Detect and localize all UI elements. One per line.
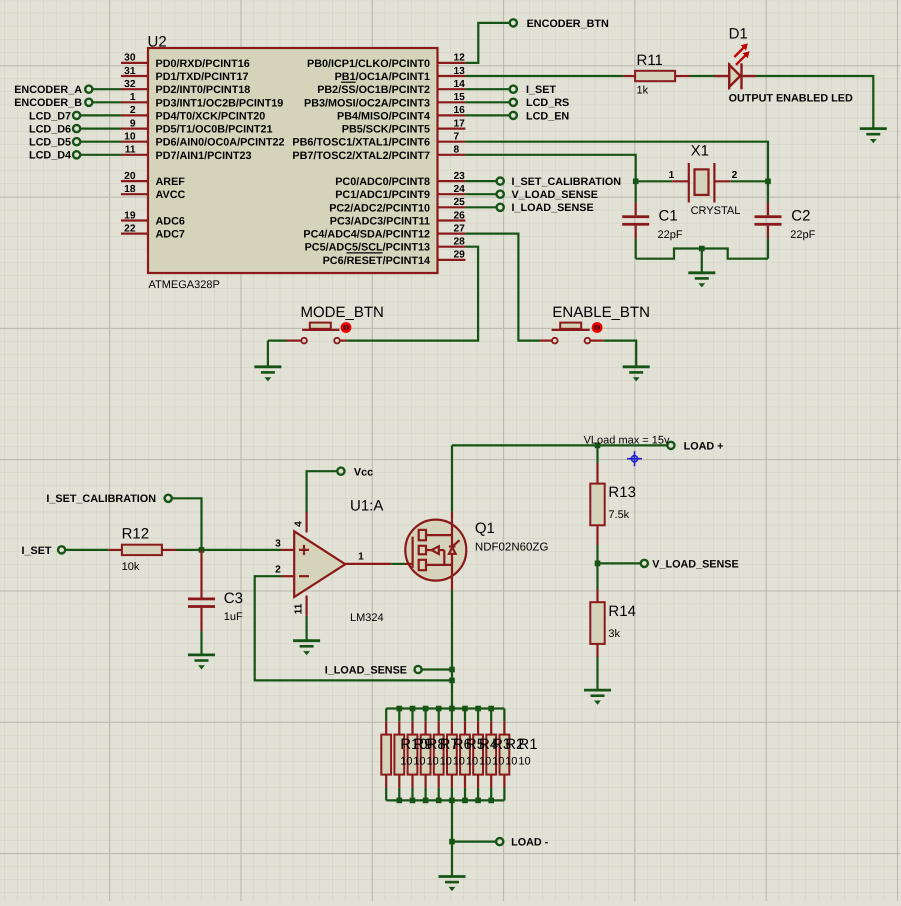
wire R2 to rails: [490, 709, 492, 722]
junction bank bottom R2: [488, 798, 494, 804]
svg-text:LCD_D4: LCD_D4: [29, 150, 71, 162]
ground (op-amp): [293, 641, 320, 656]
U2 pin 27 PC4/ADC4/SDA/PCINT12 stub: [438, 233, 466, 235]
junction bank bottom R8: [410, 798, 416, 804]
wire R11 to D1: [690, 75, 715, 77]
op-amp minus sign: [299, 575, 309, 577]
wire C3 to ground: [200, 632, 202, 655]
svg-text:I_SET: I_SET: [21, 545, 51, 557]
U2 pin 18 AVCC stub: [121, 193, 148, 195]
D1 emission arrows: [734, 43, 749, 64]
svg-text:LCD_D5: LCD_D5: [29, 137, 71, 149]
svg-text:C1: C1: [659, 207, 678, 224]
op-amp power stubs pin4 pin11: [306, 512, 308, 533]
svg-text:PD3/INT1/OC2B/PCINT19: PD3/INT1/OC2B/PCINT19: [156, 97, 284, 109]
push button MODE_BTN: [287, 323, 348, 344]
overline for RESET: [347, 252, 383, 254]
svg-text:ADC6: ADC6: [156, 216, 185, 228]
svg-text:PD0/RXD/PCINT16: PD0/RXD/PCINT16: [156, 58, 250, 70]
Q1 source stub: [451, 581, 453, 591]
svg-text:10: 10: [440, 756, 452, 768]
svg-text:PC3/ADC3/PCINT11: PC3/ADC3/PCINT11: [330, 216, 430, 228]
svg-text:9: 9: [130, 118, 136, 129]
resistor R4 pins: [464, 721, 466, 734]
resistor R6: [434, 735, 444, 775]
resistor R2 pins: [490, 721, 492, 734]
svg-text:10: 10: [453, 756, 465, 768]
junction bank top R3: [475, 706, 481, 712]
wire LCD_D7 to U2: [80, 114, 121, 116]
svg-text:PB3/MOSI/OC2A/PCINT3: PB3/MOSI/OC2A/PCINT3: [304, 97, 430, 109]
svg-text:PB2/SS/OC1B/PCINT2: PB2/SS/OC1B/PCINT2: [317, 84, 430, 96]
U2 pin 2 PD4/T0/XCK/PCINT20 stub: [121, 114, 148, 116]
svg-text:22pF: 22pF: [658, 229, 683, 241]
svg-text:R11: R11: [637, 52, 663, 69]
svg-text:ATMEGA328P: ATMEGA328P: [149, 279, 220, 291]
wire crystal ground rail: [636, 249, 768, 259]
U2 pin 24 PC1/ADC1/PCINT9 stub: [438, 193, 466, 195]
U2 pin 31 PD1/TXD/PCINT17 stub: [121, 75, 148, 77]
resistor R10: [381, 735, 391, 775]
junction bank bottom R9: [397, 798, 403, 804]
resistor R1: [500, 735, 510, 775]
junction bank bottom R3: [475, 798, 481, 804]
wire R5 to rails: [451, 709, 453, 722]
svg-text:ENCODER_A: ENCODER_A: [14, 84, 82, 96]
svg-text:1: 1: [669, 170, 675, 181]
resistor R14: [590, 602, 604, 644]
svg-text:20: 20: [124, 171, 136, 182]
wire U2 pin27 to ENABLE_BTN: [465, 234, 540, 341]
svg-text:R12: R12: [122, 525, 150, 542]
svg-text:OUTPUT ENABLED LED: OUTPUT ENABLED LED: [729, 93, 853, 105]
svg-text:14: 14: [454, 79, 466, 90]
wire I_SET to R12: [65, 549, 108, 551]
wire U2 to V_LOAD_SENSE: [465, 193, 496, 195]
svg-text:LCD_RS: LCD_RS: [526, 97, 569, 109]
wire R8 to rails: [411, 709, 413, 722]
wire R6 to rails: [438, 709, 440, 722]
resistor R10 pins: [385, 721, 387, 734]
terminal LCD_D4: [73, 151, 80, 158]
wire I_SET_CALIBRATION to node: [172, 498, 202, 550]
svg-text:NDF02N60ZG: NDF02N60ZG: [475, 542, 549, 554]
svg-text:2: 2: [275, 565, 281, 576]
U2 pin 1 PD3/INT1/OC2B/PCINT19 stub: [121, 101, 148, 103]
svg-text:11: 11: [125, 145, 136, 156]
wire Q1 source down to bank: [451, 590, 453, 708]
svg-text:V_LOAD_SENSE: V_LOAD_SENSE: [512, 189, 598, 201]
wire R7 to rails: [425, 709, 427, 722]
resistor R8: [408, 735, 418, 775]
svg-text:PC1/ADC1/PCINT9: PC1/ADC1/PCINT9: [335, 189, 430, 201]
overline for SS: [341, 81, 356, 83]
wire U2 pin12 to ENCODER_BTN: [465, 23, 509, 63]
svg-text:26: 26: [454, 210, 466, 221]
svg-text:1uF: 1uF: [224, 611, 243, 623]
svg-text:8: 8: [454, 145, 460, 156]
junction LOAD+ node: [595, 443, 601, 449]
svg-text:2: 2: [732, 170, 738, 181]
svg-text:28: 28: [454, 237, 466, 248]
junction bank bottom R4: [462, 798, 468, 804]
resistor R6 pins: [438, 721, 440, 734]
resistor R8 pins: [411, 721, 413, 734]
resistor R13: [590, 484, 604, 526]
svg-text:ENABLE_BTN: ENABLE_BTN: [552, 304, 650, 321]
U2 pin 26 PC3/ADC3/PCINT11 stub: [438, 219, 466, 221]
op-amp input stubs: [281, 549, 294, 551]
svg-text:PB5/SCK/PCINT5: PB5/SCK/PCINT5: [342, 124, 430, 136]
U2 pin 7 PB6/TOSC1/XTAL1/PCINT6 stub: [438, 141, 466, 143]
ground (ENABLE_BTN): [623, 367, 650, 382]
svg-text:30: 30: [124, 53, 136, 64]
wire LCD_D6 to U2: [80, 128, 121, 130]
wire node to C2: [767, 181, 769, 202]
U2 pin 29 PC6/RESET/PCINT14 stub: [438, 259, 466, 261]
U2 pin 17 PB5/SCK/PCINT5 stub: [438, 128, 466, 130]
svg-text:VLoad max = 15v: VLoad max = 15v: [584, 435, 670, 447]
svg-text:R14: R14: [608, 603, 636, 620]
wire R9 to rails: [398, 709, 400, 722]
LED D1: [714, 63, 756, 89]
terminal ENCODER_A: [85, 86, 92, 93]
resistor R1 pins: [503, 721, 505, 734]
svg-text:24: 24: [454, 184, 466, 195]
wire opamp out to Q1 gate: [391, 563, 404, 565]
terminal LCD_RS: [510, 99, 517, 106]
wire: [267, 341, 269, 367]
svg-text:19: 19: [124, 210, 136, 221]
junction bank bottom R6: [436, 798, 442, 804]
junction bank bottom R5: [449, 798, 455, 804]
junction bank top R4: [462, 706, 468, 712]
wire U2 pin13 to R11: [465, 75, 623, 77]
resistor R5 pins: [451, 721, 453, 734]
svg-text:10: 10: [413, 756, 425, 768]
origin marker (blue crosshair): [627, 451, 642, 466]
push button ENABLE_BTN: [540, 323, 604, 344]
resistor R9: [394, 735, 404, 775]
wire R1 to rails: [503, 709, 505, 722]
terminal I_SET_CALIBRATION: [165, 495, 172, 502]
svg-text:C3: C3: [224, 590, 243, 607]
ground (LOAD): [439, 877, 466, 892]
junction bank top R9: [397, 706, 403, 712]
resistor R7 pins: [425, 721, 427, 734]
resistor R11: [635, 71, 675, 81]
U2 pin 25 PC2/ADC2/PCINT10 stub: [438, 206, 466, 208]
wire node to X1 pin1: [636, 180, 673, 182]
svg-text:LCD_EN: LCD_EN: [526, 110, 569, 122]
wire R10 to rails: [385, 709, 387, 722]
resistor R5: [447, 735, 457, 775]
svg-text:R13: R13: [608, 484, 636, 501]
U2 pin 28 PC5/ADC5/SCL/PCINT13 stub: [438, 246, 466, 248]
svg-text:2: 2: [130, 105, 136, 116]
wire ENCODER_A to U2: [92, 88, 121, 90]
svg-text:3: 3: [275, 538, 281, 549]
U2 pin 9 PD5/T1/OC0B/PCINT21 stub: [121, 128, 148, 130]
svg-text:PD5/T1/OC0B/PCINT21: PD5/T1/OC0B/PCINT21: [156, 124, 273, 136]
resistor R7: [421, 735, 431, 775]
svg-text:I_SET_CALIBRATION: I_SET_CALIBRATION: [512, 176, 622, 188]
junction crystal right node: [765, 179, 771, 185]
wire C1 to rail: [635, 239, 637, 259]
svg-text:PD6/AIN0/OC0A/PCINT22: PD6/AIN0/OC0A/PCINT22: [156, 137, 285, 149]
U2 pin 23 PC0/ADC0/PCINT8 stub: [438, 180, 466, 182]
svg-text:C2: C2: [791, 207, 810, 224]
resistor R14 pins: [596, 589, 598, 602]
svg-text:3k: 3k: [608, 628, 620, 640]
wire bank top rail: [386, 707, 504, 709]
svg-text:13: 13: [454, 66, 466, 77]
svg-text:27: 27: [454, 223, 466, 234]
crystal X1: [672, 163, 730, 203]
junction bank top R6: [436, 706, 442, 712]
ENABLE_BTN actuator red circle: [592, 322, 603, 333]
wire ENABLE_BTN to ground: [604, 341, 637, 367]
svg-text:LOAD +: LOAD +: [684, 440, 724, 452]
ground (LED): [860, 129, 887, 144]
U2 pin 10 PD6/AIN0/OC0A/PCINT22 stub: [121, 141, 148, 143]
ground (MODE_BTN): [254, 367, 281, 382]
junction bank top R5: [449, 706, 455, 712]
terminal I_LOAD_SENSE: [415, 666, 422, 673]
U2 pin 22 ADC7 stub: [121, 233, 148, 235]
U2 pin 8 PB7/TOSC2/XTAL2/PCINT7 stub: [438, 154, 466, 156]
wire LCD_D4 to U2: [80, 154, 121, 156]
U2 pin 16 PB4/MISO/PCINT4 stub: [438, 114, 466, 116]
svg-text:PB7/TOSC2/XTAL2/PCINT7: PB7/TOSC2/XTAL2/PCINT7: [292, 150, 430, 162]
wire I_LOAD_SENSE to node: [422, 668, 452, 670]
terminal LCD_EN: [510, 112, 517, 119]
wire U2 to LCD_EN: [465, 114, 509, 116]
op-amp U1:A: [294, 531, 345, 597]
terminal ENCODER_BTN: [510, 19, 517, 26]
transistor Q1 NDF02N60ZG: [405, 520, 467, 581]
wire opamp pin4 to Vcc: [307, 471, 337, 512]
wire bank to ground: [451, 800, 453, 876]
svg-text:10: 10: [400, 756, 412, 768]
wire feedback opamp pin2 to source node: [255, 576, 452, 680]
svg-text:X1: X1: [691, 142, 709, 159]
terminal I_SET: [510, 86, 517, 93]
U2 pin 13 PB1/OC1A/PCINT1 stub: [438, 75, 466, 77]
terminal V_LOAD_SENSE: [497, 191, 504, 198]
svg-text:PB6/TOSC1/XTAL1/PCINT6: PB6/TOSC1/XTAL1/PCINT6: [292, 137, 430, 149]
wire C2 to rail: [767, 239, 769, 259]
svg-text:PD2/INT0/PCINT18: PD2/INT0/PCINT18: [156, 84, 251, 96]
U2 pin 15 PB3/MOSI/OC2A/PCINT3 stub: [438, 101, 466, 103]
svg-text:I_SET: I_SET: [526, 84, 556, 96]
svg-text:29: 29: [454, 250, 466, 261]
svg-text:10: 10: [518, 756, 530, 768]
U2 pin 19 ADC6 stub: [121, 219, 148, 221]
svg-text:ADC7: ADC7: [156, 229, 185, 241]
resistor R12: [122, 545, 162, 555]
svg-text:U2: U2: [148, 34, 167, 51]
svg-text:1k: 1k: [637, 85, 649, 97]
junction bank top R2: [488, 706, 494, 712]
wire X1 pin2 to node: [730, 180, 768, 182]
svg-text:ENCODER_BTN: ENCODER_BTN: [527, 18, 609, 30]
svg-text:R1: R1: [518, 736, 537, 753]
Q1 drain stub: [451, 512, 453, 520]
junction bank top R8: [410, 706, 416, 712]
wire R4 to rails: [464, 709, 466, 722]
wire U2 pin7 XTAL1 to crystal: [465, 142, 768, 182]
ground (C3): [188, 655, 215, 670]
svg-text:LOAD -: LOAD -: [511, 837, 549, 849]
svg-text:10: 10: [466, 756, 478, 768]
svg-text:PD1/TXD/PCINT17: PD1/TXD/PCINT17: [156, 71, 249, 83]
svg-text:LM324: LM324: [350, 612, 384, 624]
svg-text:25: 25: [454, 197, 466, 208]
junction V_LOAD_SENSE node: [595, 561, 601, 567]
terminal LCD_D6: [73, 125, 80, 132]
svg-text:22pF: 22pF: [790, 229, 815, 241]
U2 pin 11 PD7/AIN1/PCINT23 stub: [121, 154, 148, 156]
svg-text:10: 10: [505, 756, 517, 768]
U2 pin 14 PB2/SS/OC1B/PCINT2 stub: [438, 88, 466, 90]
svg-text:PB4/MISO/PCINT4: PB4/MISO/PCINT4: [337, 110, 430, 122]
svg-text:15: 15: [454, 92, 466, 103]
resistor R12 pins: [108, 549, 122, 551]
svg-text:PC4/ADC4/SDA/PCINT12: PC4/ADC4/SDA/PCINT12: [303, 229, 430, 241]
junction crystal ground node: [699, 246, 705, 252]
svg-text:18: 18: [124, 184, 136, 195]
svg-text:10: 10: [492, 756, 504, 768]
terminal V_LOAD_SENSE: [641, 560, 648, 567]
resistor R4: [460, 735, 470, 775]
terminal LOAD-: [496, 838, 503, 845]
ground (R14): [584, 690, 611, 705]
resistor R9 pins: [398, 721, 400, 734]
svg-text:D1: D1: [729, 25, 748, 42]
terminal LOAD+: [667, 442, 674, 449]
svg-text:AVCC: AVCC: [156, 189, 186, 201]
resistor R11 pins: [623, 75, 635, 77]
svg-text:PD7/AIN1/PCINT23: PD7/AIN1/PCINT23: [156, 150, 252, 162]
svg-text:ENCODER_B: ENCODER_B: [14, 97, 82, 109]
wire U2 to I_SET_CALIBRATION: [465, 180, 496, 182]
svg-text:PB1/OC1A/PCINT1: PB1/OC1A/PCINT1: [335, 71, 430, 83]
svg-text:MODE_BTN: MODE_BTN: [301, 304, 384, 321]
terminal I_SET_CALIBRATION: [497, 178, 504, 185]
wire to V_LOAD_SENSE: [598, 562, 641, 564]
IC U2 ATMEGA328P body: [148, 48, 438, 273]
terminal ENCODER_B: [85, 99, 92, 106]
U2 pin 12 PB0/ICP1/CLKO/PCINT0 stub: [438, 62, 466, 64]
svg-text:10k: 10k: [122, 561, 140, 573]
svg-text:4: 4: [294, 521, 305, 527]
op-amp plus sign: [299, 545, 309, 555]
svg-text:LCD_D7: LCD_D7: [29, 110, 71, 122]
U2 pin 32 PD2/INT0/PCINT18 stub: [121, 88, 148, 90]
resistor R3 pins: [477, 721, 479, 734]
MODE_BTN actuator red circle: [341, 322, 352, 333]
capacitor C2: [755, 202, 782, 238]
svg-text:12: 12: [454, 53, 466, 64]
svg-text:22: 22: [124, 223, 136, 234]
wire U2 to LCD_RS: [465, 101, 509, 103]
terminal LCD_D5: [73, 138, 80, 145]
wire to ground: [701, 249, 703, 273]
svg-text:CRYSTAL: CRYSTAL: [691, 205, 741, 217]
svg-text:11: 11: [294, 603, 305, 614]
wire opamp pin11 to ground: [306, 616, 308, 641]
wire ground to MODE_BTN: [268, 340, 287, 342]
svg-text:PB0/ICP1/CLKO/PCINT0: PB0/ICP1/CLKO/PCINT0: [307, 58, 430, 70]
junction R12/C3 node: [199, 547, 205, 553]
U2 pin 20 AREF stub: [121, 180, 148, 182]
wire U2 to I_SET: [465, 88, 509, 90]
junction crystal left node: [633, 179, 639, 185]
svg-text:10: 10: [427, 756, 439, 768]
junction I_LOAD_SENSE node: [449, 667, 455, 673]
wire R14 to ground: [596, 657, 598, 690]
svg-text:23: 23: [454, 171, 466, 182]
capacitor C3: [188, 550, 215, 632]
wire node to R14: [596, 563, 598, 589]
terminal LCD_D7: [73, 112, 80, 119]
junction bank top R7: [423, 706, 429, 712]
junction feedback node: [449, 678, 455, 684]
wire LOAD+ rail: [452, 444, 667, 446]
wire Q1 drain up: [451, 445, 453, 511]
ground (crystal): [688, 273, 715, 288]
capacitor C1: [622, 202, 649, 238]
junction bank bottom R7: [423, 798, 429, 804]
svg-text:PC2/ADC2/PCINT10: PC2/ADC2/PCINT10: [329, 202, 430, 214]
svg-text:32: 32: [124, 79, 136, 90]
terminal Vcc: [337, 468, 344, 475]
junction LOAD- node: [449, 839, 455, 845]
svg-text:AREF: AREF: [156, 176, 186, 188]
svg-text:10: 10: [124, 132, 136, 143]
resistor R3: [473, 735, 483, 775]
wire bank bottom rail: [386, 799, 504, 801]
svg-text:PC6/RESET/PCINT14: PC6/RESET/PCINT14: [323, 255, 430, 267]
svg-text:17: 17: [454, 118, 466, 129]
wire MODE_BTN to U2 pin28: [347, 247, 478, 341]
svg-text:31: 31: [124, 66, 136, 77]
terminal I_SET: [58, 546, 65, 553]
resistor R13 pins: [596, 463, 598, 484]
op-amp output stub pin1: [345, 563, 391, 565]
terminal I_LOAD_SENSE: [497, 204, 504, 211]
wire R13 to node: [596, 545, 598, 563]
wire to R13: [596, 445, 598, 463]
resistor R2: [486, 735, 496, 775]
wire to LOAD-: [452, 840, 496, 842]
svg-text:I_LOAD_SENSE: I_LOAD_SENSE: [512, 202, 594, 214]
svg-text:V_LOAD_SENSE: V_LOAD_SENSE: [652, 558, 738, 570]
svg-text:Vcc: Vcc: [354, 466, 373, 478]
wire U2 pin8 XTAL2 to crystal: [465, 155, 635, 182]
svg-text:16: 16: [454, 105, 466, 116]
wire ENCODER_B to U2: [92, 101, 121, 103]
svg-text:I_LOAD_SENSE: I_LOAD_SENSE: [325, 664, 407, 676]
svg-text:7.5k: 7.5k: [608, 509, 629, 521]
svg-text:PD4/T0/XCK/PCINT20: PD4/T0/XCK/PCINT20: [156, 110, 266, 122]
svg-text:1: 1: [358, 552, 364, 563]
svg-text:PC5/ADC5/SCL/PCINT13: PC5/ADC5/SCL/PCINT13: [305, 242, 430, 254]
svg-text:I_SET_CALIBRATION: I_SET_CALIBRATION: [46, 493, 156, 505]
svg-text:PC0/ADC0/PCINT8: PC0/ADC0/PCINT8: [335, 176, 430, 188]
svg-text:U1:A: U1:A: [350, 498, 383, 515]
